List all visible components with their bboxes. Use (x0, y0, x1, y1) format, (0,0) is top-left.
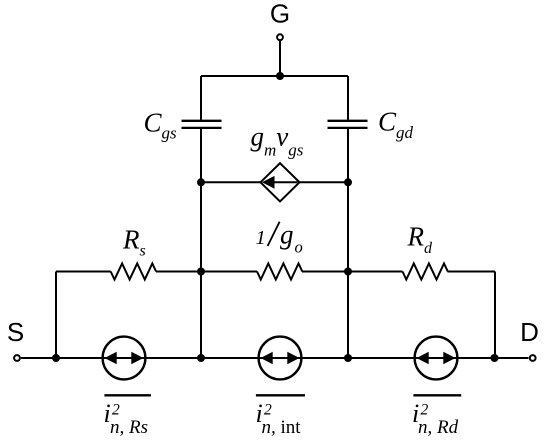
svg-text:2: 2 (264, 402, 272, 419)
svg-text:G: G (270, 0, 290, 29)
svg-text:n, Rd: n, Rd (418, 417, 459, 438)
svg-text:n, Rs: n, Rs (110, 417, 148, 438)
svg-text:S: S (7, 317, 24, 347)
svg-text:1: 1 (256, 227, 266, 249)
svg-text:2: 2 (421, 402, 429, 419)
svg-text:n, int: n, int (262, 417, 302, 438)
svg-text:2: 2 (112, 402, 120, 419)
svg-text:D: D (520, 317, 539, 347)
